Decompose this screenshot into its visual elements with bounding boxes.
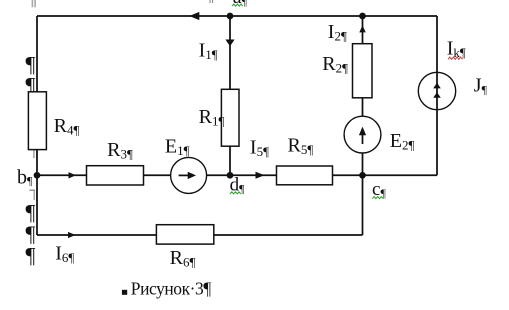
resistor R5 [277, 166, 333, 185]
arrow current I5 (right) [256, 172, 265, 179]
wire R2/E2 branch [362, 16, 364, 175]
wire left branch (R4) [36, 16, 38, 175]
svg-text:¶: ¶ [26, 243, 36, 268]
node d junction dot [227, 172, 234, 179]
squiggle under a [232, 4, 243, 6]
margin formatting mark (pilcrow stems below R4) [33, 148, 37, 159]
margin formatting mark (tiny stems top center) [210, 0, 214, 3]
wire R1 branch [229, 16, 231, 175]
squiggle under Ik (red) [448, 57, 462, 59]
arrow current I6 (right) [68, 232, 76, 238]
margin formatting mark (partial pilcrow stems, top left) [32, 0, 36, 7]
wire c down [362, 175, 364, 235]
resistor R3 [87, 166, 144, 185]
wire middle row [37, 174, 437, 176]
resistor R1 [221, 89, 239, 146]
node c junction dot [359, 172, 366, 179]
caption bullet [122, 290, 127, 295]
squiggle under c [372, 197, 383, 199]
squiggle under d [230, 192, 241, 194]
wire bottom row [37, 234, 363, 236]
arrow current top wire (left) [189, 12, 199, 20]
current source J [418, 72, 455, 109]
arrow current I2 (up) [359, 25, 365, 32]
wire J branch [436, 16, 438, 175]
svg-text:a¶: a¶ [233, 0, 248, 8]
node b junction dot [34, 172, 41, 179]
voltage source E2 [344, 116, 381, 153]
svg-text:Рисунок·3¶: Рисунок·3¶ [131, 279, 212, 299]
arrow current from b (right) [69, 172, 76, 178]
wire top [37, 15, 437, 17]
margin formatting mark (partial grey pilcrow) [30, 190, 38, 201]
resistor R2 [353, 44, 373, 98]
arrow current I1 (down) [225, 40, 234, 47]
resistor R4 [28, 92, 46, 150]
wire b down [36, 175, 38, 235]
node a junction dot [227, 13, 234, 20]
voltage source E1 [171, 157, 207, 193]
resistor R6 [156, 225, 213, 244]
node junction dot top of R2 branch [359, 13, 366, 20]
